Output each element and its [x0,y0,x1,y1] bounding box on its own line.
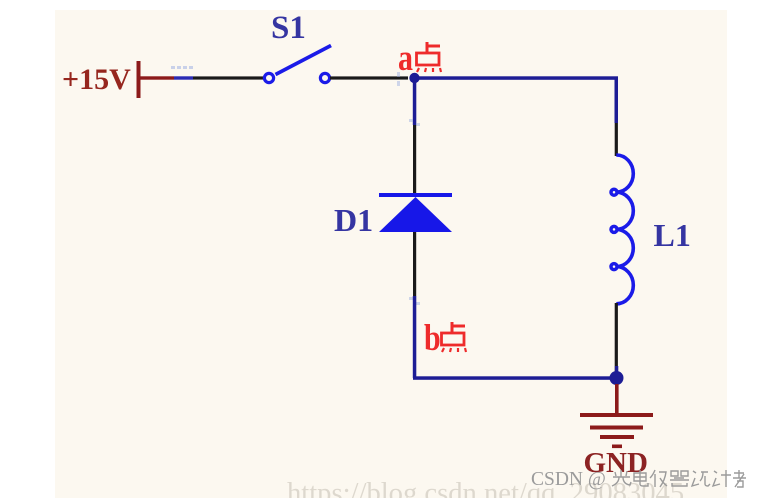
junction node b (bottom right) [610,371,624,385]
svg-text:D1: D1 [334,202,373,238]
wire (red from +15V bar) [140,76,174,79]
ground symbol GND [580,413,653,448]
power supply bar symbol [137,61,141,98]
wire (navy from node a to top-right corner) [414,76,618,80]
svg-text:a: a [398,38,413,79]
wire (navy down right corner) [615,78,619,123]
inductor L1 coil [611,155,633,304]
wire (dark red to ground) [615,384,619,415]
svg-text:CSDN @: CSDN @ [531,469,606,490]
wire (black down to diode D1) [413,125,416,195]
artifact dashes above blue wire [171,66,193,69]
wire (blue segment) [174,76,193,79]
wire (black below diode) [413,232,416,296]
watermark CJK glyph strokes [612,470,746,487]
wire (black to switch S1) [193,76,265,79]
artifact dashes left of node a [397,72,400,86]
wire (navy from node a down) [413,78,417,125]
wire (black from switch to node a) [330,76,408,79]
node b label (b point, red) [424,318,466,359]
switch S1 [264,46,331,83]
wire (navy bottom from b corner to junction) [413,376,617,380]
wire (navy tip above junction b) [615,366,618,378]
svg-text:+15V: +15V [62,63,131,96]
svg-text:L1: L1 [654,217,691,253]
artifact dashes at lower transition [409,297,420,305]
diode D1 triangle [379,197,452,232]
node a label (a point, red) [398,38,441,79]
wire (navy down to corner b) [413,296,417,378]
junction node a [409,73,419,83]
wire (black down to inductor L1) [615,123,618,156]
diode D1 cathode bar [379,193,452,197]
artifact dashes at wire transition [409,119,420,126]
wire (black below inductor to junction b) [615,303,618,373]
svg-text:S1: S1 [271,10,306,46]
svg-text:b: b [424,318,441,359]
